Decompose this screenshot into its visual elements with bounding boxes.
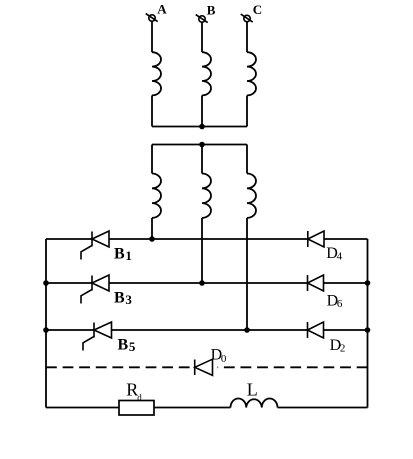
svg-text:d: d xyxy=(137,393,142,403)
svg-text:C: C xyxy=(253,2,262,17)
svg-text:A: A xyxy=(157,2,167,17)
svg-text:1: 1 xyxy=(125,248,131,263)
svg-text:4: 4 xyxy=(337,251,343,263)
svg-text:L: L xyxy=(247,380,258,400)
svg-text:2: 2 xyxy=(340,343,346,355)
svg-text:3: 3 xyxy=(125,292,132,307)
svg-text:0: 0 xyxy=(221,353,227,365)
svg-text:B: B xyxy=(207,2,216,17)
svg-text:B: B xyxy=(118,336,129,353)
svg-text:B: B xyxy=(114,246,125,263)
svg-text:5: 5 xyxy=(129,339,136,354)
svg-text:6: 6 xyxy=(337,298,343,310)
svg-text:B: B xyxy=(114,289,125,306)
